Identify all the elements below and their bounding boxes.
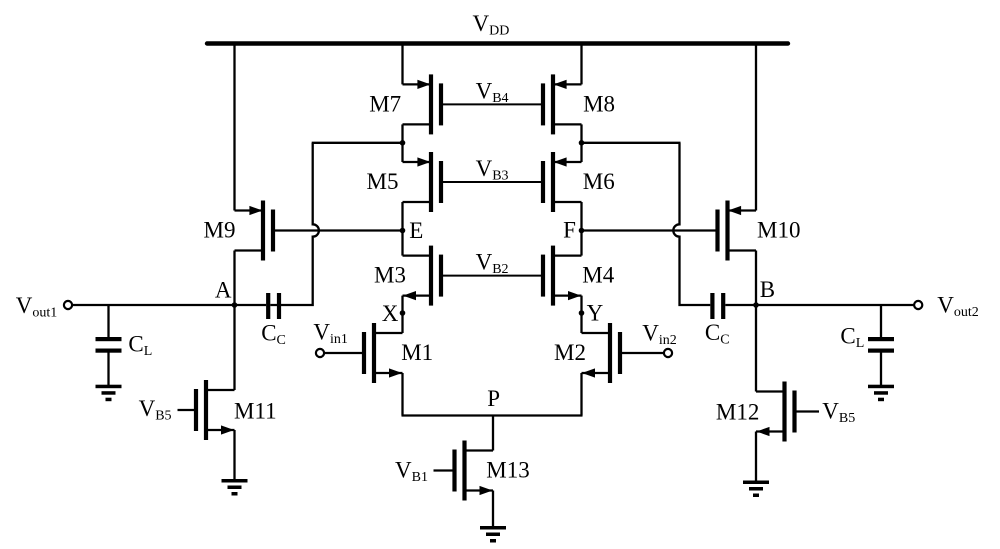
svg-text:B: B bbox=[760, 277, 775, 302]
junction (M8 drain / M6 source / CC-right riser) bbox=[579, 140, 585, 146]
transistor M12 bbox=[756, 382, 819, 442]
svg-text:M11: M11 bbox=[234, 398, 277, 423]
node F bbox=[579, 228, 585, 234]
svg-text:M2: M2 bbox=[554, 340, 586, 365]
wire bbox=[880, 305, 882, 338]
svg-text:M12: M12 bbox=[716, 399, 759, 424]
wire bbox=[492, 491, 494, 528]
ground bbox=[480, 526, 506, 543]
wire bbox=[401, 373, 403, 416]
capacitor CL (left) bbox=[96, 337, 122, 353]
wire with hop (right CC riser) bbox=[673, 143, 710, 305]
wire bbox=[312, 142, 403, 144]
svg-text:E: E bbox=[409, 218, 423, 243]
wire bbox=[580, 44, 582, 85]
transistor M2 bbox=[582, 323, 665, 383]
terminal Vin1 bbox=[316, 349, 324, 357]
ground bbox=[222, 479, 248, 496]
capacitor CL (right) bbox=[868, 337, 894, 353]
wire bbox=[233, 44, 235, 211]
transistor M4 bbox=[541, 246, 582, 306]
capacitor CC (right) bbox=[710, 293, 725, 319]
transistor M8 bbox=[541, 74, 582, 134]
transistor M13 bbox=[434, 441, 494, 501]
ground bbox=[96, 385, 122, 402]
wire bbox=[107, 349, 109, 386]
svg-text:M8: M8 bbox=[583, 91, 615, 116]
capacitor CC (left) bbox=[266, 293, 281, 319]
node B bbox=[753, 302, 759, 308]
wire bbox=[755, 432, 757, 482]
wire bbox=[580, 143, 582, 162]
ground bbox=[868, 385, 894, 402]
svg-text:M5: M5 bbox=[367, 169, 399, 194]
junction (M7 drain / M5 source / CC-left riser) bbox=[400, 140, 406, 146]
transistor M1 bbox=[324, 323, 403, 383]
power rail VDD bbox=[207, 41, 788, 45]
wire bbox=[401, 124, 403, 143]
node A bbox=[232, 302, 238, 308]
wire (tail rail P) bbox=[402, 414, 583, 416]
wire VB2 gate rail bbox=[441, 275, 543, 277]
wire (M10 drain to node B to M12 drain) bbox=[755, 251, 757, 392]
transistor M7 bbox=[403, 74, 444, 134]
wire bbox=[492, 416, 494, 451]
svg-text:A: A bbox=[215, 278, 232, 303]
node Y bbox=[579, 310, 585, 316]
wire bbox=[580, 373, 582, 416]
svg-text:M7: M7 bbox=[369, 91, 401, 116]
svg-text:M9: M9 bbox=[204, 218, 236, 243]
wire bbox=[755, 44, 757, 211]
svg-text:M4: M4 bbox=[582, 263, 614, 288]
wire bbox=[233, 430, 235, 480]
terminal Vin2 bbox=[664, 349, 672, 357]
wire bbox=[580, 296, 582, 333]
wire bbox=[880, 349, 882, 386]
node X bbox=[400, 310, 406, 316]
transistor M11 bbox=[178, 380, 235, 440]
transistor M9 bbox=[235, 201, 276, 261]
svg-text:M1: M1 bbox=[401, 340, 433, 365]
node E bbox=[400, 228, 406, 234]
wire (Vout1 to CC left plate) bbox=[72, 304, 267, 306]
wire with hop (left CC riser) bbox=[270, 143, 319, 305]
wire VB3 gate rail bbox=[441, 181, 543, 183]
transistor M6 bbox=[541, 152, 582, 212]
wire (node F to M10 gate) bbox=[582, 229, 718, 231]
wire VB4 gate rail bbox=[441, 103, 543, 105]
svg-text:X: X bbox=[382, 301, 399, 326]
terminal Vout1 bbox=[64, 301, 72, 309]
wire bbox=[401, 202, 403, 256]
wire (CC right plate to Vout2) bbox=[725, 304, 914, 306]
svg-text:M6: M6 bbox=[583, 169, 615, 194]
transistor M3 bbox=[403, 246, 444, 306]
svg-text:Y: Y bbox=[587, 300, 604, 325]
terminal Vout2 bbox=[914, 301, 922, 309]
wire (node E to M9 gate) bbox=[273, 229, 403, 231]
svg-text:M3: M3 bbox=[374, 263, 406, 288]
wire bbox=[580, 124, 582, 143]
svg-text:P: P bbox=[487, 386, 500, 411]
wire bbox=[107, 305, 109, 338]
svg-text:M10: M10 bbox=[757, 218, 800, 243]
svg-text:M13: M13 bbox=[486, 458, 529, 483]
wire bbox=[580, 202, 582, 256]
wire (M9 drain to node A to M11 drain) bbox=[233, 251, 235, 391]
wire bbox=[401, 44, 403, 85]
ground bbox=[743, 481, 769, 498]
svg-text:F: F bbox=[563, 218, 576, 243]
wire bbox=[582, 142, 681, 144]
transistor M10 bbox=[715, 201, 756, 261]
wire bbox=[401, 143, 403, 162]
transistor M5 bbox=[403, 152, 444, 212]
wire bbox=[401, 296, 403, 333]
